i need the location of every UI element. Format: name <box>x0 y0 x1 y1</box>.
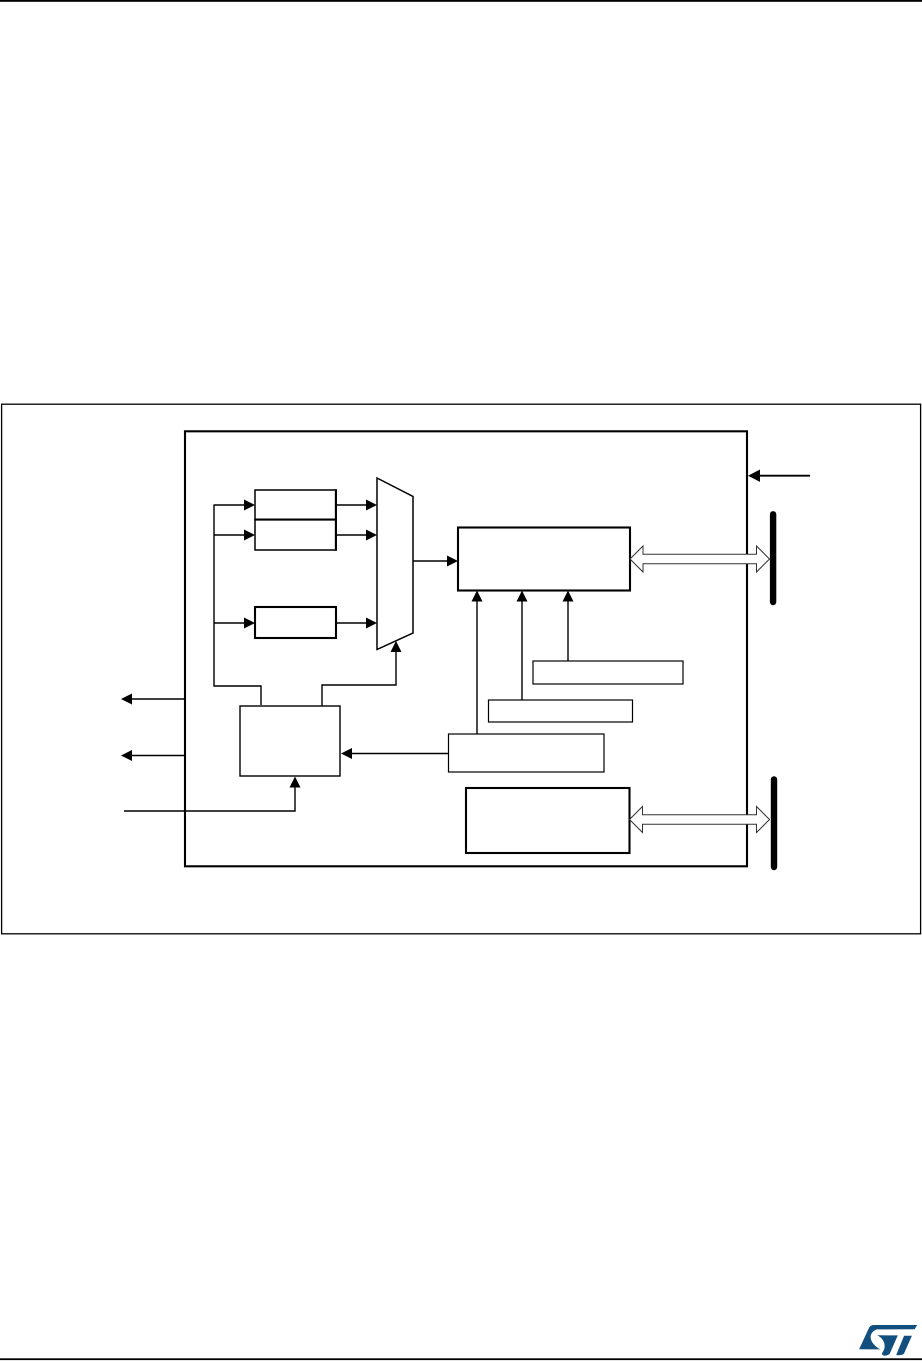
bus terminator bar bottom <box>771 780 777 868</box>
arrowhead at mux input 1 <box>366 500 377 511</box>
arrowhead left output 1 <box>121 694 132 705</box>
hollow bus arrow top <box>630 546 770 572</box>
hollow bus arrow bottom <box>630 807 770 833</box>
chip boundary U1 <box>185 431 747 866</box>
box C <box>449 734 605 772</box>
footer rule <box>0 1358 922 1360</box>
wire left output 2 <box>131 755 185 757</box>
wire branch to register 1 <box>214 504 246 506</box>
arrowhead into chip right edge <box>748 470 760 482</box>
figure frame <box>2 404 921 934</box>
wire box C to control box <box>351 753 449 755</box>
arrowhead at mux input 2 <box>366 530 377 541</box>
wire bottom-left input <box>124 786 295 811</box>
mux trapezoid <box>377 478 413 650</box>
arrowhead box C to big box <box>472 591 483 602</box>
register box pair (top-left) <box>255 490 336 550</box>
wire branch to register 2 <box>214 534 246 536</box>
wire feed column <box>214 505 261 706</box>
arrowhead into big box <box>447 556 458 567</box>
ST logo S middle piece <box>877 1335 898 1355</box>
flat box A <box>533 661 683 684</box>
control box <box>240 706 340 776</box>
wire register 2 to mux <box>336 534 368 536</box>
ST logo swoosh left piece <box>859 1325 917 1349</box>
arrowhead into register 1 <box>244 500 255 511</box>
flat box B <box>489 700 633 722</box>
wire register 3 to mux <box>336 622 368 624</box>
register pair divider <box>254 519 336 521</box>
wire register 1 to mux <box>336 504 368 506</box>
arrowhead left output 2 <box>121 750 132 761</box>
wire mux select from control box <box>322 650 396 706</box>
arrowhead at mux input 3 <box>366 618 377 629</box>
bus terminator bar top <box>770 514 776 602</box>
wire left output 1 <box>131 698 185 700</box>
wire mux output to big box <box>413 560 449 562</box>
arrowhead box B to big box <box>517 591 528 602</box>
wire box A to big box <box>567 599 569 661</box>
wire box B to big box <box>521 599 523 700</box>
arrowhead box A to big box <box>563 591 574 602</box>
header rule <box>0 0 922 2</box>
arrowhead into register 3 <box>244 618 255 629</box>
wire box C to big box <box>476 599 478 734</box>
register pair bold right edge <box>335 489 337 550</box>
arrowhead into control box bottom <box>290 777 301 788</box>
arrowhead into register 2 <box>244 530 255 541</box>
big data box (shift register) <box>458 528 630 591</box>
wire branch to register 3 <box>214 622 246 624</box>
box D (buffer) <box>466 788 630 853</box>
arrowhead into mux bottom <box>391 641 402 652</box>
ST logo T stem <box>896 1336 912 1356</box>
arrowhead into control box <box>341 748 352 759</box>
wire top-right input <box>758 475 810 477</box>
register box 3 <box>255 607 336 638</box>
